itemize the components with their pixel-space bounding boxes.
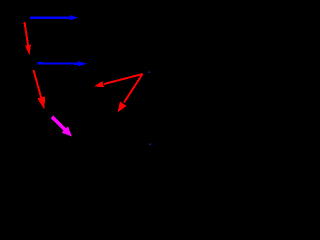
red arrow A (right group, pointing left-down) [94, 74, 143, 87]
blue arrow 1 (top horizontal, pointing right) [30, 15, 78, 20]
navy dot node upper [149, 71, 151, 73]
red arrow B (right group, pointing down-left) [118, 74, 143, 113]
navy dot node lower [149, 143, 151, 145]
red arrow 2 (left, pointing down-right) [34, 70, 46, 110]
magenta arrow (bottom, pointing down-right) [52, 117, 72, 137]
red arrow 1 (upper left, pointing down) [25, 22, 31, 56]
blue arrow 2 (middle horizontal, pointing right) [38, 61, 88, 66]
